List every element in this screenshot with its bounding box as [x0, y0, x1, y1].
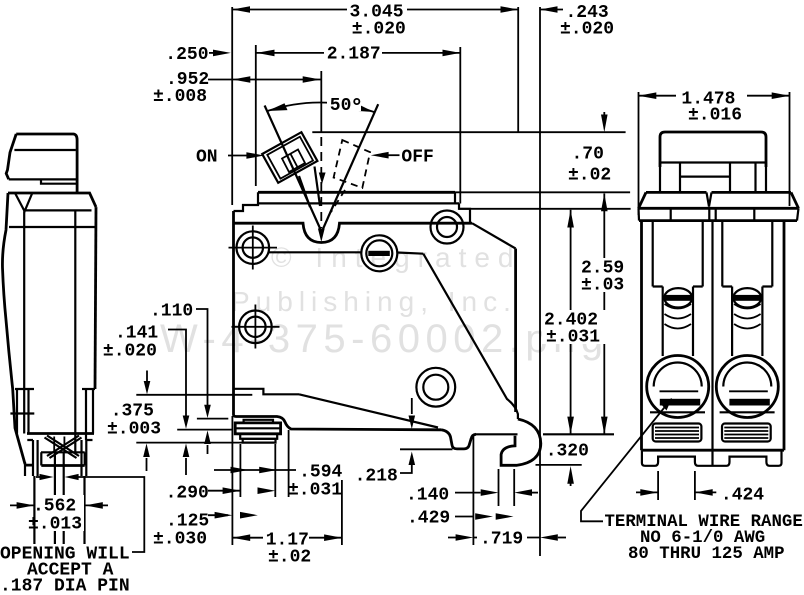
dim .320 arrow [570, 476, 572, 486]
svg-text:.110: .110 [150, 302, 193, 322]
handle lower line [9, 178, 77, 180]
right big screw upper chord [729, 390, 768, 392]
svg-text:±.031: ±.031 [288, 481, 342, 501]
plain circle bottom outer [416, 368, 455, 407]
left big screw chord [650, 411, 705, 413]
ext line ramp lower [288, 430, 290, 497]
ext line .719 left [472, 436, 474, 545]
ext line foot left lower [239, 444, 241, 497]
body left edge [234, 211, 237, 417]
right big screw ball arc [723, 363, 771, 387]
ribbed clamp foot top plate [244, 420, 273, 423]
handle block bottom [660, 161, 766, 163]
circle connecting line right [398, 253, 424, 254]
body right edge vertical [514, 249, 517, 413]
dim 2.187 right arrowhead [443, 50, 461, 57]
feet mid row [41, 451, 85, 453]
leg left outer pair [33, 440, 38, 579]
tier4 ribs [639, 208, 799, 220]
svg-text:.187 DIA PIN: .187 DIA PIN [0, 577, 130, 595]
body top-left corner steps [234, 192, 259, 211]
svg-text:.562: .562 [33, 497, 76, 517]
ribbed clamp foot wide bar [235, 423, 280, 434]
svg-text:±.013: ±.013 [28, 515, 82, 535]
dim 1.478 line [639, 95, 790, 97]
dim .140 line [455, 492, 481, 494]
ext line 3.045 right [517, 7, 519, 132]
right stem step [722, 285, 772, 287]
pole outer edges [642, 221, 785, 451]
toggle travel V left arm [265, 106, 321, 231]
dim .218 down arrow [411, 398, 413, 414]
right pole neck [732, 287, 762, 357]
DIN rail hook [501, 419, 541, 465]
dim .375 down arrow [146, 371, 148, 384]
dim 1.478 arrowheads [639, 92, 657, 99]
circle connecting line left [269, 251, 362, 253]
dim .218 up arrow [409, 452, 416, 466]
svg-text:.290: .290 [166, 484, 209, 504]
bolt circle top-left inner [243, 237, 263, 257]
dim 2.402 bottom arrow [567, 417, 574, 435]
tier3 center V [707, 192, 712, 206]
svg-text:2.187: 2.187 [327, 45, 381, 65]
ext line .424 left [657, 471, 659, 500]
feet top row [27, 432, 94, 435]
dim .719 arrowheads [456, 534, 474, 541]
dim 3.045 right arrowhead [501, 6, 519, 13]
dim 1.17 line [232, 537, 342, 539]
left pole neck [663, 287, 693, 357]
dim .70 top arrow [603, 112, 605, 125]
right barrel arcs [734, 304, 761, 329]
ext line .243 right [539, 7, 541, 556]
centerline mid arrowhead [319, 173, 326, 185]
bottom feet profile [642, 450, 782, 466]
body left wavy edge [2, 193, 25, 464]
bottom line [642, 449, 785, 452]
text .594 [296, 462, 342, 478]
bolt circle mid-left inner [245, 317, 265, 337]
ext line 1.478 right [789, 92, 791, 206]
text 3.045 [347, 2, 407, 18]
svg-text:.141: .141 [115, 324, 158, 344]
dim .594 line [214, 469, 297, 471]
body top line [8, 193, 96, 207]
handle left slant [6, 134, 16, 179]
interior vertical right [74, 210, 76, 452]
ribbed clamp foot mid line [235, 427, 280, 429]
dim .218 ext line [400, 448, 453, 450]
plain circle bottom inner ring [423, 375, 448, 400]
ext line B left [177, 429, 233, 431]
ext line foot right lower [274, 444, 276, 497]
handle step [41, 179, 77, 183]
text .562 [36, 495, 84, 531]
svg-text:±.03: ±.03 [581, 276, 624, 296]
toggle centerline dashed [320, 137, 322, 228]
terminal leader [581, 403, 668, 521]
dim .719 line [448, 537, 540, 539]
toggle top reference line [312, 131, 625, 133]
interior line y227 [9, 226, 95, 228]
interior step lines bottom-left [234, 389, 300, 395]
left stem step [653, 285, 703, 287]
body outer top edge [258, 191, 455, 194]
dim .218 leader [400, 456, 412, 473]
arc right arrowhead [355, 104, 375, 112]
svg-text:±.016: ±.016 [688, 106, 742, 126]
text 1.478 [678, 88, 736, 104]
dim .250 leader [209, 52, 215, 54]
bottom notch [441, 430, 476, 449]
dim .125 arrowheads [215, 512, 233, 519]
svg-text:W-4-375-60002.png: W-4-375-60002.png [160, 317, 609, 361]
svg-text:80 THRU 125 AMP: 80 THRU 125 AMP [628, 545, 785, 564]
feet side caps [27, 439, 92, 441]
left small screw [664, 288, 692, 307]
svg-text:.375: .375 [111, 402, 154, 422]
ext line 1.478 left [638, 92, 640, 215]
dim .70 bottom / 2.59 top arrow [601, 194, 608, 212]
toggle handle shaft [299, 167, 320, 208]
slotted screw slot [368, 251, 390, 256]
pivot arrow [318, 229, 325, 243]
right big screw chord [720, 411, 775, 413]
left big screw upper chord [660, 390, 699, 392]
dim .243 line [540, 9, 563, 11]
bolt circle mid-left outer [239, 311, 272, 344]
dim .110 leader [196, 309, 208, 406]
opening leader [78, 477, 144, 552]
dim .141 leader [168, 330, 186, 422]
svg-text:±.008: ±.008 [153, 87, 207, 107]
body top reference line right [455, 191, 630, 193]
plain circle top-right outer [431, 211, 464, 244]
svg-text:±.020: ±.020 [352, 20, 406, 40]
bottom tab left [26, 579, 55, 595]
text .320 [543, 441, 589, 457]
svg-text:±.031: ±.031 [546, 328, 600, 348]
handle band line [14, 149, 76, 151]
dim .320 line [536, 464, 582, 466]
text .719 [477, 529, 527, 546]
interior vertical left [23, 211, 25, 433]
clip bowtie X [47, 436, 79, 457]
second reference line right [459, 208, 631, 210]
dim .140 arrowheads [481, 489, 499, 496]
dim .424 arrowheads [640, 489, 658, 496]
dim .243 arrowhead [540, 6, 558, 13]
ribbed clamp foot bottom bar [243, 439, 276, 443]
feet step verticals [25, 452, 85, 476]
dim .290 arrowheads [223, 487, 241, 494]
dim .141 up arrow [185, 458, 187, 475]
left barrel arcs [665, 304, 692, 329]
toggle handle ON inner [267, 137, 313, 179]
dim 2.187 line [256, 52, 460, 54]
OFF leader [385, 154, 400, 156]
ext line C [136, 442, 276, 444]
text OPENING WILL [0, 544, 132, 595]
text 2.59 [578, 258, 623, 292]
toggle handle OFF dashed [334, 140, 371, 188]
ON arrowhead [246, 152, 264, 159]
feet verticals [17, 389, 93, 440]
dim 2.59 bottom arrow [601, 417, 608, 435]
dim .429 line [455, 516, 474, 518]
body right edge [95, 207, 96, 389]
dim 3.045 left arrowhead [232, 6, 250, 13]
OFF handle dashed shaft [331, 190, 345, 212]
dim 2.59 line [603, 194, 605, 435]
dim .562 line [10, 504, 108, 506]
bolt circle top-left outer [237, 231, 270, 264]
left big screw slot [660, 399, 700, 406]
svg-text:.429: .429 [407, 509, 450, 529]
text 2.402 [542, 310, 610, 344]
dim .375 up arrow [146, 458, 148, 471]
svg-text:±.020: ±.020 [560, 20, 614, 40]
text 50 deg [327, 95, 361, 111]
ext line body-left lower [231, 416, 233, 545]
dim .424 line [636, 491, 716, 493]
svg-text:50: 50 [330, 96, 352, 116]
svg-text:ON: ON [196, 148, 218, 168]
OFF arrowhead [371, 152, 389, 159]
handle block [660, 132, 766, 167]
dim .562 arrowheads [17, 502, 35, 509]
right small screw [733, 288, 761, 307]
svg-text:.424: .424 [721, 486, 764, 506]
ON leader [228, 155, 248, 157]
leg left inner [54, 452, 56, 579]
body inner top edge with pivot notch [233, 223, 472, 242]
bolt circle top-left crosshair [229, 226, 278, 270]
dim .141 down arrow [183, 416, 190, 429]
dim .290 line [208, 490, 240, 492]
line below notch [25, 209, 92, 211]
svg-text:.594: .594 [299, 463, 342, 483]
svg-text:.320: .320 [546, 442, 589, 462]
dim .429 arrowheads [475, 513, 493, 520]
slotted screw inner ring [366, 240, 392, 266]
right big screw outer [716, 356, 778, 418]
svg-text:.140: .140 [406, 486, 449, 506]
dim .125 line [208, 514, 228, 516]
ext line 2.187 left [255, 45, 257, 186]
text 2.187 [324, 44, 382, 60]
ext line A [136, 394, 252, 396]
body bottom edge left shelf [236, 417, 441, 430]
svg-text:±.030: ±.030 [153, 530, 207, 550]
slotted screw outer circle [361, 235, 397, 271]
right pole stem [722, 221, 772, 287]
bottom tab right [64, 579, 85, 595]
svg-text:±.02: ±.02 [568, 166, 611, 186]
left grille [653, 424, 702, 442]
tier2 inner box [680, 163, 756, 193]
dim 2.402 line [570, 210, 572, 434]
ext line hook right [513, 469, 515, 506]
interior shallow diagonal near bottom [299, 394, 438, 427]
dim 2.187 left arrowhead [257, 50, 275, 57]
toggle centerline solid [320, 71, 322, 132]
dim .952 left arrowhead [233, 76, 251, 83]
svg-text:±.020: ±.020 [103, 342, 157, 362]
tier2 sides [660, 163, 766, 193]
svg-text:±.003: ±.003 [107, 420, 161, 440]
svg-text:.125: .125 [166, 512, 209, 532]
ext line foot top [197, 418, 228, 420]
rib line left [10, 412, 34, 414]
ext line 1.17 right [341, 480, 343, 545]
terminal leader arrowhead [661, 398, 673, 411]
opening arrows [36, 476, 40, 478]
dim .110 up arrow [207, 445, 209, 454]
pivot V notch [15, 193, 32, 211]
feet bottom row [25, 464, 85, 467]
interior diagonal from screw to lower right [423, 254, 518, 419]
tier3 outer slants [639, 192, 799, 208]
ext line .424 right [694, 471, 696, 500]
ext line 2.187 right [459, 47, 461, 204]
dim 1.17 arrowheads [232, 534, 250, 541]
body top second line [259, 202, 459, 204]
left ledge [15, 388, 34, 390]
bolt circle mid-left crosshair [232, 305, 280, 349]
dim 2.402 top arrow [567, 210, 574, 228]
ext line body left [231, 7, 233, 205]
right chamfer diagonal [472, 223, 516, 248]
toggle travel V right arm [323, 104, 379, 230]
50 degree arc [267, 102, 374, 112]
center divider [711, 221, 713, 466]
svg-text:.719: .719 [480, 530, 523, 550]
dim .952 right arrowhead [303, 76, 321, 83]
left big screw ball arc [654, 363, 702, 387]
arc left arrowhead [267, 103, 287, 111]
svg-text:OFF: OFF [401, 148, 433, 168]
left big screw outer [647, 356, 709, 418]
leg right outer pair [82, 440, 87, 579]
body top-right corner steps [455, 192, 470, 223]
svg-text:.250: .250 [165, 45, 208, 65]
svg-text:.218: .218 [355, 467, 398, 487]
clip pin gap [54, 437, 64, 453]
right grille [722, 424, 771, 442]
plain circle top-right inner ring [437, 217, 457, 237]
svg-text:Publishing, Inc.: Publishing, Inc. [231, 286, 517, 317]
dim 3.045 line [232, 9, 518, 11]
dim .952 line [208, 79, 321, 81]
leg right inner [63, 452, 65, 579]
svg-text:.70: .70 [572, 145, 604, 165]
ribbed clamp foot lower bar [240, 434, 277, 439]
bottom reference line to right [476, 433, 614, 435]
right ledge [82, 388, 95, 390]
right big screw slot [729, 399, 769, 406]
left pole stem [653, 221, 703, 287]
handle top [16, 134, 77, 192]
ext line hook left [498, 469, 500, 506]
dim .110 down arrow [204, 405, 211, 418]
dim .594 arrowheads [231, 467, 249, 474]
tier3 top edges [646, 191, 791, 194]
toggle handle ON outer [262, 132, 317, 183]
tier4 band [639, 208, 799, 220]
svg-text:±.02: ±.02 [268, 548, 311, 568]
toggle handle ON tip detail [282, 150, 305, 173]
dim .250 arrowhead [213, 50, 231, 57]
